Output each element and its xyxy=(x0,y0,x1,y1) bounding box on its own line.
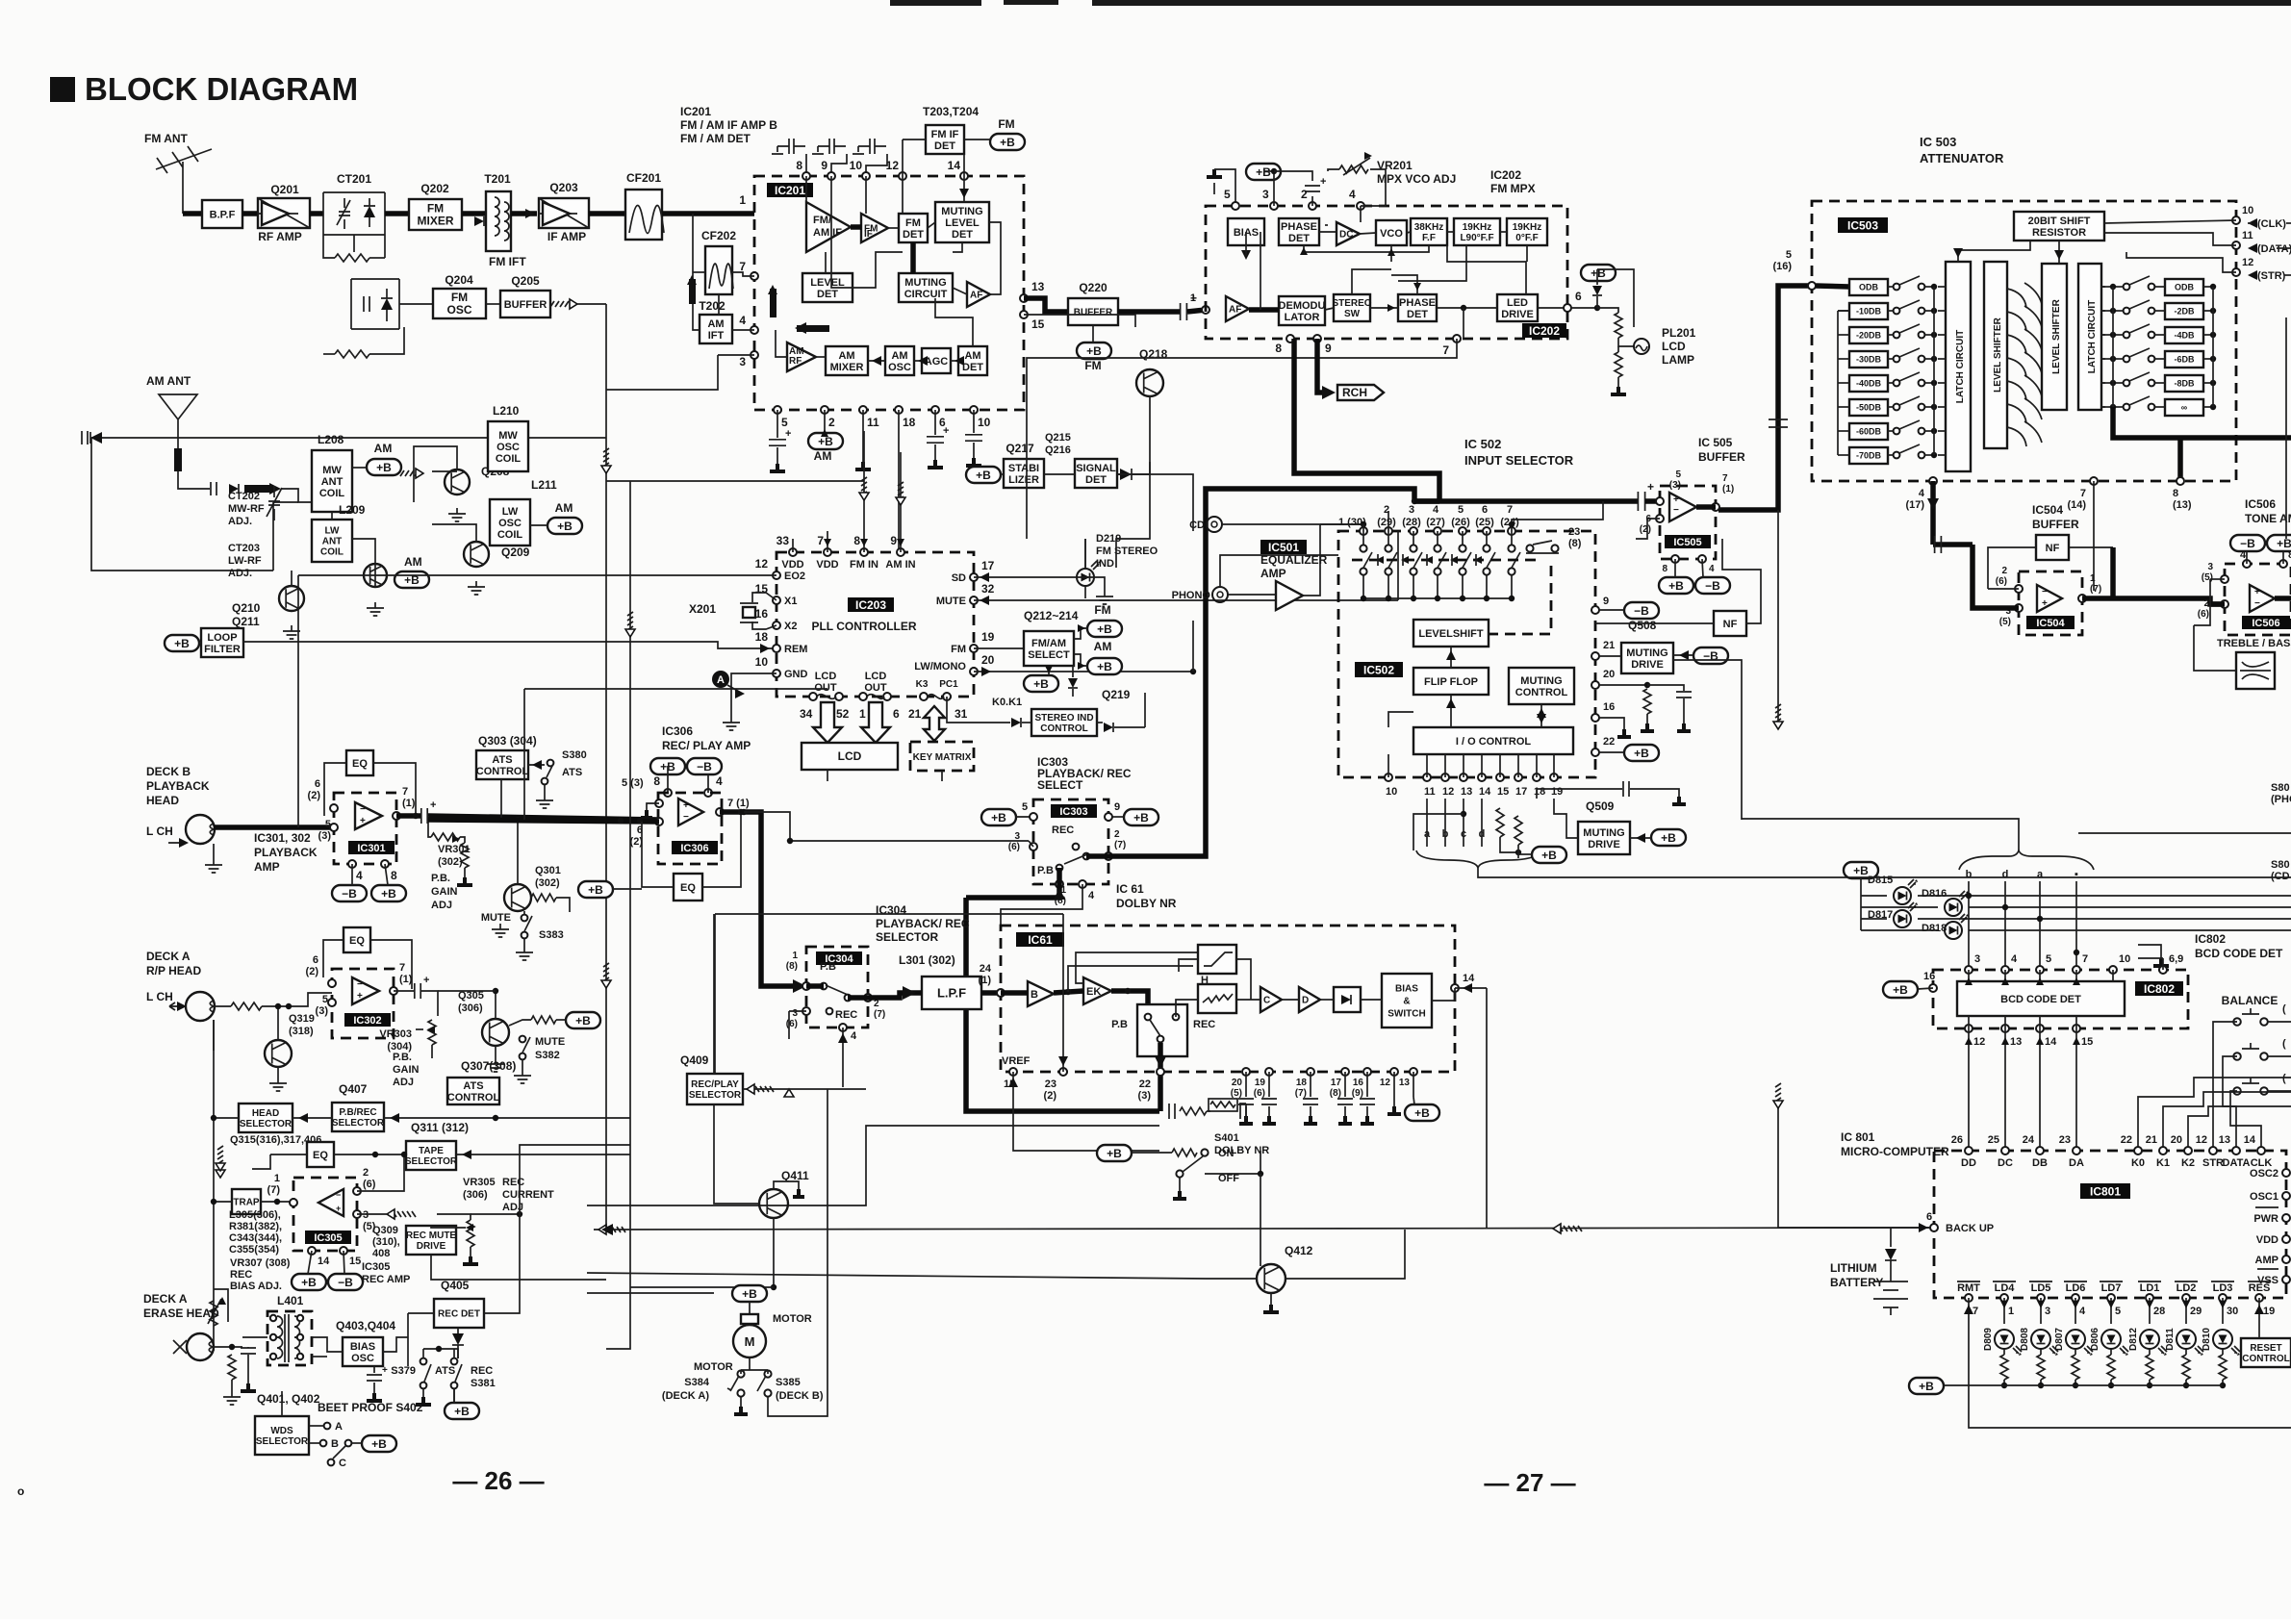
block MUTING CIRCUIT xyxy=(899,273,953,302)
IC504 dashed box xyxy=(2019,571,2082,635)
block HEAD SELECTOR xyxy=(239,1104,293,1132)
svg-text:Q412: Q412 xyxy=(1285,1244,1313,1257)
svg-text:CF201: CF201 xyxy=(626,171,661,185)
svg-text:+B: +B xyxy=(575,1014,591,1028)
ground ic802 xyxy=(2138,945,2161,958)
svg-text:+B: +B xyxy=(376,461,392,474)
svg-text:RES: RES xyxy=(2249,1282,2271,1294)
svg-text:F.F: F.F xyxy=(1422,233,1436,243)
svg-text:+B: +B xyxy=(2277,537,2291,550)
svg-text:2: 2 xyxy=(828,416,835,429)
svg-text:11: 11 xyxy=(2242,230,2253,241)
matrix dashed arrows xyxy=(1352,559,1540,562)
svg-text:∞: ∞ xyxy=(2181,403,2188,413)
svg-text:+B: +B xyxy=(1097,622,1112,636)
svg-text:BATTERY: BATTERY xyxy=(1830,1276,1883,1289)
svg-text:7 (1): 7 (1) xyxy=(727,798,750,809)
svg-text:Q217: Q217 xyxy=(1005,442,1034,455)
svg-text:(DECK B): (DECK B) xyxy=(776,1390,824,1402)
block FM DET xyxy=(899,214,928,242)
block AM MIXER xyxy=(826,346,868,375)
IC202 name label xyxy=(1522,323,1566,338)
svg-text:5: 5 xyxy=(2115,1306,2121,1317)
wire lcd out to left xyxy=(827,770,828,781)
svg-text:NF: NF xyxy=(2046,543,2060,554)
feedback wires ic61 xyxy=(1068,966,1193,992)
svg-text:DD: DD xyxy=(1961,1157,1976,1169)
wire deck B to IC306 xyxy=(428,820,659,822)
wire erase col xyxy=(606,1287,630,1349)
wire REM arrow xyxy=(760,644,770,653)
IC304 name label xyxy=(816,952,862,965)
svg-text:8: 8 xyxy=(796,159,802,172)
svg-text:REC DET: REC DET xyxy=(438,1309,480,1320)
svg-text:(302): (302) xyxy=(535,877,560,889)
wire xyxy=(511,211,537,216)
svg-text:3: 3 xyxy=(2207,562,2213,572)
svg-text:NF: NF xyxy=(1723,619,1738,630)
svg-text:(28): (28) xyxy=(1402,517,1421,528)
block IO CONTROL xyxy=(1413,727,1573,754)
svg-text:−: − xyxy=(336,1190,341,1200)
svg-text:IC 505: IC 505 xyxy=(1698,436,1733,449)
IC61 dashed box xyxy=(1001,926,1455,1072)
oval +B motor xyxy=(732,1285,767,1302)
svg-text:(5): (5) xyxy=(2202,572,2213,583)
svg-text:Q203: Q203 xyxy=(549,181,578,194)
svg-text:LD6: LD6 xyxy=(2066,1282,2086,1294)
svg-text:D811: D811 xyxy=(2165,1328,2176,1351)
svg-text:P.B.: P.B. xyxy=(393,1052,412,1063)
svg-text:1: 1 xyxy=(1190,292,1196,304)
IC801 dashed box xyxy=(1934,1151,2286,1298)
pins IC201 bottom xyxy=(774,406,781,414)
svg-text:(318): (318) xyxy=(289,1026,314,1037)
svg-text:OSC: OSC xyxy=(498,518,522,529)
wire ic502 7 col to bus xyxy=(1512,520,1595,531)
svg-text:AM: AM xyxy=(814,449,832,463)
svg-text:TONE AMP: TONE AMP xyxy=(2245,512,2291,525)
selector matrix pins xyxy=(1360,527,1367,535)
svg-text:12: 12 xyxy=(1442,786,1454,798)
svg-text:(2): (2) xyxy=(1044,1090,1057,1102)
svg-text:LEVEL SHIFTER: LEVEL SHIFTER xyxy=(2051,298,2062,373)
wire LW/MONO xyxy=(974,671,1193,672)
coil L209 LW ANT COIL xyxy=(312,520,352,562)
IC306 name label xyxy=(672,841,718,854)
wire s401 down xyxy=(1260,1174,1261,1266)
svg-text:−B: −B xyxy=(338,1276,353,1289)
svg-text:Q409: Q409 xyxy=(680,1053,709,1067)
svg-text:CONTROL: CONTROL xyxy=(447,1092,500,1104)
svg-text:-8DB: -8DB xyxy=(2174,379,2195,389)
svg-text:LITHIUM: LITHIUM xyxy=(1830,1261,1877,1275)
mixer Q202 FM MIXER xyxy=(409,199,462,230)
svg-text:24: 24 xyxy=(980,963,992,975)
svg-text:D816: D816 xyxy=(1922,888,1947,900)
svg-text:15: 15 xyxy=(1497,786,1509,798)
wire q412 to right xyxy=(1286,1230,1405,1279)
svg-text:+B: +B xyxy=(976,469,991,482)
cap 2 xyxy=(1305,186,1320,191)
svg-text:AGC: AGC xyxy=(925,356,949,368)
wire xyxy=(310,211,323,216)
svg-text:(9): (9) xyxy=(1352,1088,1363,1099)
svg-text:5: 5 xyxy=(1675,469,1681,480)
wires ic61 right xyxy=(1176,1000,1198,1017)
svg-text:1: 1 xyxy=(859,707,866,721)
svg-text:LIZER: LIZER xyxy=(1008,474,1039,486)
scan edge marks top xyxy=(890,0,981,6)
block AGC xyxy=(922,348,951,373)
svg-text:3: 3 xyxy=(363,1209,369,1221)
block PB REC switch ic61 xyxy=(1137,1004,1187,1056)
pin4 xyxy=(751,326,758,334)
svg-text:AMP: AMP xyxy=(1260,567,1286,580)
wire EK out xyxy=(1111,991,1148,1011)
wires ic502 inner xyxy=(1450,647,1452,668)
wires latch to rows left xyxy=(1938,286,1946,288)
wires k0k1k2 up xyxy=(2138,1078,2291,1151)
svg-text:(3): (3) xyxy=(1138,1090,1152,1102)
svg-text:+B: +B xyxy=(557,520,573,533)
svg-text:LAMP: LAMP xyxy=(1662,353,1694,367)
svg-text:b: b xyxy=(1966,869,1973,880)
oval +B eq xyxy=(578,881,613,898)
svg-text:(3): (3) xyxy=(318,830,332,842)
wire long phono xyxy=(1742,819,2019,850)
svg-text:STEREO: STEREO xyxy=(1332,298,1371,309)
svg-text:+B: +B xyxy=(1893,983,1908,997)
svg-text:(6): (6) xyxy=(786,1019,798,1029)
svg-text:52: 52 xyxy=(836,707,850,721)
wire cd column link xyxy=(1387,511,1389,531)
svg-text:8: 8 xyxy=(1275,342,1282,355)
svg-text:DC: DC xyxy=(1998,1157,2013,1169)
svg-text:+B: +B xyxy=(991,811,1006,825)
wires shift register xyxy=(1958,241,2030,262)
IC505 pins bottom xyxy=(1671,555,1679,563)
svg-text:FM MPX: FM MPX xyxy=(1490,182,1536,195)
svg-text:DET: DET xyxy=(962,362,983,373)
svg-text:P.B: P.B xyxy=(1037,865,1054,876)
svg-text:20: 20 xyxy=(1232,1078,1243,1088)
svg-text:8: 8 xyxy=(1662,564,1667,574)
coil L208 MW ANT COIL xyxy=(312,450,352,512)
svg-text:VDD: VDD xyxy=(781,559,803,571)
svg-text:+B: +B xyxy=(1634,747,1649,760)
svg-text:DRIVE: DRIVE xyxy=(1501,309,1534,320)
wire led bus xyxy=(1934,1384,2223,1386)
block ODB right xyxy=(2165,279,2203,295)
block -6DB right xyxy=(2165,351,2203,368)
svg-text:3: 3 xyxy=(792,1008,798,1019)
block BCD CODE DET xyxy=(1957,981,2125,1016)
wires CF202 T202 xyxy=(718,294,720,315)
wire from Q218 down to IC502 area xyxy=(1116,452,1150,568)
transistor Q207 xyxy=(364,564,387,587)
wire ic504 out thick xyxy=(2082,598,2225,604)
svg-text:7: 7 xyxy=(1442,343,1449,357)
svg-text:6: 6 xyxy=(893,707,900,721)
svg-text:C: C xyxy=(339,1458,346,1469)
svg-text:COIL: COIL xyxy=(320,547,344,558)
IC506 dashed box xyxy=(2225,564,2291,635)
svg-text:FM ANT: FM ANT xyxy=(144,132,189,145)
treble bass curves box xyxy=(2236,652,2275,689)
svg-text:AMP: AMP xyxy=(2255,1255,2278,1266)
wire reset right edge xyxy=(2290,1338,2291,1352)
wire to IC201 pin1 xyxy=(662,211,754,216)
svg-text:+: + xyxy=(943,425,949,437)
IC505 pin 5(3) xyxy=(1656,497,1664,505)
osc Q204 FM OSC xyxy=(433,289,486,318)
svg-text:(6): (6) xyxy=(363,1179,376,1190)
svg-text:−: − xyxy=(360,804,366,815)
svg-text:PC1: PC1 xyxy=(939,679,958,690)
svg-text:IF AMP: IF AMP xyxy=(547,230,586,243)
hatch 304 xyxy=(0,0,1,1)
svg-text:(7): (7) xyxy=(1295,1088,1307,1099)
filter CF201 xyxy=(625,190,662,240)
wire pin18 cap xyxy=(1537,789,1622,799)
svg-text:X1: X1 xyxy=(784,596,797,607)
IC305 dashed box xyxy=(293,1178,357,1251)
svg-text:4: 4 xyxy=(739,314,746,327)
wire motor junction xyxy=(771,1284,776,1290)
svg-text:REC/ PLAY AMP: REC/ PLAY AMP xyxy=(662,739,751,752)
block EQ mid xyxy=(307,1142,334,1167)
IC505 dashed box xyxy=(1660,486,1716,559)
IC203 dashed box xyxy=(776,552,974,697)
cap on bus xyxy=(1769,419,1788,427)
svg-text:MUTE: MUTE xyxy=(481,912,511,924)
wire pin16 xyxy=(1599,718,1624,729)
svg-text:3: 3 xyxy=(1014,831,1020,842)
svg-text:A: A xyxy=(335,1421,343,1433)
svg-text:OSC1: OSC1 xyxy=(2250,1191,2278,1203)
amp C xyxy=(1260,987,1282,1012)
svg-text:SD: SD xyxy=(952,572,966,584)
svg-text:IC202: IC202 xyxy=(1529,324,1560,338)
wire AM in xyxy=(178,481,210,489)
pot vr307 xyxy=(210,1301,217,1326)
svg-text:7: 7 xyxy=(402,786,408,798)
svg-text:EO2: EO2 xyxy=(784,571,805,582)
svg-text:10: 10 xyxy=(850,159,863,172)
svg-text:(8): (8) xyxy=(1330,1088,1341,1099)
wire deck B main xyxy=(214,825,334,830)
svg-text:AF: AF xyxy=(1229,305,1241,316)
svg-text:+: + xyxy=(2254,587,2260,597)
svg-text:SWITCH: SWITCH xyxy=(1387,1009,1425,1020)
wire ic203 mute long down xyxy=(1026,531,1028,539)
svg-text:IC505: IC505 xyxy=(1673,537,1701,548)
svg-text:MUTING: MUTING xyxy=(1583,827,1624,839)
block H filter xyxy=(1198,945,1236,974)
svg-text:(5): (5) xyxy=(1999,617,2011,627)
svg-text:STR: STR xyxy=(2202,1157,2224,1169)
svg-text:-60DB: -60DB xyxy=(1856,427,1882,437)
svg-text:LW: LW xyxy=(325,526,341,537)
svg-text:MW: MW xyxy=(498,430,518,442)
svg-text:16: 16 xyxy=(1353,1078,1364,1088)
svg-text:-10DB: -10DB xyxy=(1856,307,1882,317)
svg-text:+: + xyxy=(683,800,689,811)
svg-text:AM ANT: AM ANT xyxy=(146,374,191,388)
svg-text:FM STEREO: FM STEREO xyxy=(1096,546,1158,557)
wire pin19 q509 xyxy=(1554,799,1578,838)
svg-text:IC506: IC506 xyxy=(2245,497,2276,511)
cap erase xyxy=(241,1348,256,1354)
svg-text:IC203: IC203 xyxy=(855,598,886,612)
amp Q203 IF AMP xyxy=(539,198,589,228)
svg-text:LD1: LD1 xyxy=(2140,1282,2160,1294)
pins IC203 right xyxy=(970,573,978,581)
block -8DB right xyxy=(2165,375,2203,392)
svg-text:S381: S381 xyxy=(471,1378,496,1389)
svg-text:-40DB: -40DB xyxy=(1856,379,1882,389)
svg-text:15: 15 xyxy=(2081,1036,2093,1048)
svg-text:14: 14 xyxy=(1463,973,1475,984)
svg-text:S384: S384 xyxy=(684,1377,710,1388)
svg-text:5: 5 xyxy=(322,994,328,1005)
svg-text:VREF: VREF xyxy=(1002,1055,1031,1067)
svg-text:CURRENT: CURRENT xyxy=(502,1189,554,1201)
svg-text:REC: REC xyxy=(1052,825,1074,836)
oval +B FM buffer xyxy=(1077,343,1111,359)
svg-text:BIAS: BIAS xyxy=(1395,984,1418,995)
wire LCH thick demod xyxy=(1294,339,1439,501)
wire vert 655 hatches xyxy=(627,612,633,630)
svg-text:D815: D815 xyxy=(1868,875,1893,886)
svg-text:+B: +B xyxy=(1097,660,1112,673)
svg-text:3: 3 xyxy=(1262,188,1269,201)
svg-text:S379: S379 xyxy=(391,1365,416,1377)
block LEVEL SHIFTER left xyxy=(1984,262,2007,448)
abcd wires xyxy=(1426,799,1428,847)
block LED DRIVE xyxy=(1497,294,1538,321)
svg-text:SELECT: SELECT xyxy=(1028,649,1070,661)
svg-text:RMT: RMT xyxy=(1957,1282,1980,1294)
svg-text:ADJ: ADJ xyxy=(431,900,452,911)
svg-text:+: + xyxy=(785,428,791,440)
svg-text:4: 4 xyxy=(1709,564,1715,574)
title BLOCK DIAGRAM xyxy=(50,77,75,102)
svg-text:(1): (1) xyxy=(1722,484,1734,495)
wire 950 line xyxy=(715,913,1063,915)
svg-text:DATA: DATA xyxy=(2223,1157,2251,1169)
svg-text:LD4: LD4 xyxy=(1995,1282,2016,1294)
svg-text:B: B xyxy=(331,1438,339,1450)
svg-text:DECK A: DECK A xyxy=(146,950,191,963)
svg-text:+: + xyxy=(2042,598,2048,609)
resistor 2 xyxy=(335,350,369,358)
block -4DB right xyxy=(2165,327,2203,343)
svg-text:PL201: PL201 xyxy=(1662,326,1696,340)
svg-text:IC305: IC305 xyxy=(314,1232,342,1244)
svg-text:IC306: IC306 xyxy=(662,724,693,738)
wire Q219 stereo xyxy=(1144,693,1146,727)
svg-text:(CD: (CD xyxy=(2271,871,2290,882)
LEDs D809-D810 xyxy=(2003,1298,2005,1324)
block ∞ right xyxy=(2165,399,2203,416)
svg-text:30: 30 xyxy=(2227,1306,2238,1317)
svg-text:0°F.F: 0°F.F xyxy=(1515,233,1538,243)
oval +B leds xyxy=(1844,862,1878,878)
svg-text:EK: EK xyxy=(1086,986,1101,998)
svg-text:21: 21 xyxy=(2146,1134,2157,1146)
IC305 opamp xyxy=(318,1189,344,1216)
svg-text:CONTROL: CONTROL xyxy=(2242,1354,2289,1364)
svg-text:20BIT SHIFT: 20BIT SHIFT xyxy=(2028,216,2091,227)
oval -B ic505 2 xyxy=(1695,577,1730,594)
svg-text:(29): (29) xyxy=(1377,517,1396,528)
svg-text:14: 14 xyxy=(948,159,961,172)
amp Q201 RF AMP xyxy=(258,198,310,228)
svg-text:6,9: 6,9 xyxy=(2169,953,2183,965)
block STEREO SW xyxy=(1332,294,1371,321)
IC301 dashed box xyxy=(334,793,396,864)
svg-text:AM: AM xyxy=(964,350,980,362)
IC61 name label xyxy=(1016,932,1064,947)
wire out deck B xyxy=(396,813,420,819)
svg-text:D: D xyxy=(1302,996,1309,1006)
svg-text:REC: REC xyxy=(1193,1019,1215,1030)
svg-text:IF: IF xyxy=(864,229,873,240)
pin3 xyxy=(751,351,758,359)
gnd 5(3) xyxy=(647,803,659,810)
wire rec down thick xyxy=(1158,1043,1163,1111)
svg-text:19KHz: 19KHz xyxy=(1463,222,1492,233)
svg-text:VDD: VDD xyxy=(816,559,838,571)
erase head xyxy=(187,1333,214,1360)
svg-text:INPUT SELECTOR: INPUT SELECTOR xyxy=(1464,453,1574,468)
svg-text:4: 4 xyxy=(1433,504,1439,516)
svg-text:(16): (16) xyxy=(1772,261,1792,272)
svg-text:6: 6 xyxy=(1926,1211,1932,1223)
pin VREF 15 xyxy=(1009,1068,1017,1076)
svg-text:Q204: Q204 xyxy=(445,273,473,287)
svg-text:COIL: COIL xyxy=(319,488,345,499)
svg-text:12: 12 xyxy=(1380,1078,1391,1088)
svg-text:10: 10 xyxy=(1386,786,1397,798)
wire lpf out xyxy=(981,990,1001,996)
svg-text:BUFFER: BUFFER xyxy=(2032,518,2079,531)
svg-text:Q212~214: Q212~214 xyxy=(1024,609,1079,622)
svg-text:FM IFT: FM IFT xyxy=(489,255,526,268)
svg-text:21: 21 xyxy=(908,707,922,721)
svg-text:4: 4 xyxy=(2240,549,2247,561)
svg-text:24: 24 xyxy=(2023,1134,2035,1146)
wire res xyxy=(2258,1298,2260,1338)
svg-text:K0.K1: K0.K1 xyxy=(992,697,1022,708)
wire EO2 xyxy=(298,574,776,576)
svg-text:9: 9 xyxy=(1603,596,1609,607)
svg-text:SIGNAL: SIGNAL xyxy=(1076,463,1116,474)
svg-text:(3): (3) xyxy=(316,1005,329,1017)
svg-text:IC304: IC304 xyxy=(876,903,906,917)
svg-text:13: 13 xyxy=(1461,786,1472,798)
svg-text:CT203: CT203 xyxy=(228,543,260,554)
node A xyxy=(712,671,729,688)
amp AM RF xyxy=(787,343,816,371)
svg-text:DRIVE: DRIVE xyxy=(1631,659,1664,671)
svg-text:SELECTOR: SELECTOR xyxy=(689,1090,742,1101)
oval +B IC306 xyxy=(650,758,685,774)
svg-text:OUT: OUT xyxy=(864,682,887,694)
long wire 1253 left xyxy=(587,1126,1159,1205)
